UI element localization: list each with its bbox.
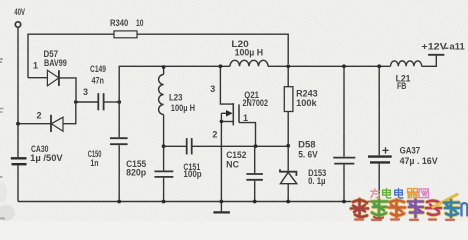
scan noise overlay — [0, 0, 1, 1]
node L23 bottom / C155 / C151 wire — [162, 144, 166, 148]
bottom red bits — [355, 218, 454, 221]
wire bottom rail — [18, 201, 379, 203]
capacitor C155 — [154, 146, 173, 201]
capacitor C149 — [78, 93, 120, 110]
node L23 top — [162, 65, 166, 69]
big char 2 green — [372, 200, 388, 217]
capacitor GA37 electrolytic — [368, 66, 392, 201]
wire top rail from corner through R340 — [28, 34, 114, 77]
inductor L20 — [230, 60, 268, 66]
diode D57 bottom half (pin2, cathode left) — [18, 104, 76, 132]
node junction dot at 40V line — [16, 122, 20, 126]
node bottom rail dots — [117, 200, 121, 204]
diode D57 top half (pin1 anode left) — [28, 70, 76, 100]
node drain junction — [219, 64, 223, 68]
yellow slash — [433, 195, 457, 208]
node rail/R243 junction — [286, 64, 290, 68]
capacitor C152 — [246, 146, 263, 201]
resistor R340 — [114, 31, 137, 38]
big char 1 dark red — [351, 199, 368, 217]
char dian blue — [395, 189, 403, 198]
resistor R243 — [284, 66, 293, 146]
char qi orange — [407, 189, 417, 198]
wire rail between L20 and L21 — [268, 65, 391, 67]
node R243 bottom junction — [286, 144, 290, 148]
big char 3 orange-red — [389, 200, 405, 218]
char guang pink — [371, 189, 380, 198]
node rail/C153 — [342, 64, 346, 68]
big char 7 blue partial — [462, 203, 468, 215]
wire mid rail — [119, 66, 230, 102]
inductor L21 — [391, 61, 422, 66]
char wang pink-magenta — [419, 189, 428, 198]
watermark row 1: small colored characters — [371, 189, 429, 198]
watermark row 2: large stylized colored characters — [351, 195, 468, 220]
inductor L23 — [159, 66, 164, 146]
big char 4 purple — [408, 200, 423, 218]
node Q21 source/substrate junction — [220, 120, 224, 124]
ground — [213, 202, 230, 213]
node D57 junction — [74, 100, 78, 104]
node rail/GA37 — [377, 64, 381, 68]
capacitor CA30 — [11, 158, 27, 201]
wire C151 row — [164, 145, 186, 147]
node 40V input terminal — [15, 22, 20, 27]
wire rail after L21 to +12V terminal — [422, 56, 437, 67]
char dian green — [383, 189, 391, 198]
node +12V output terminal — [428, 54, 444, 56]
scan edge artifacts — [0, 59, 3, 62]
capacitor C153 (0.1u) — [333, 66, 355, 201]
big char 6 teal — [444, 200, 459, 217]
transistor Q21 2N7002 — [220, 66, 255, 201]
diode D58 zener — [280, 146, 297, 202]
node C149/C150 junction — [117, 100, 121, 104]
node gate junction — [254, 144, 258, 148]
capacitor C151 — [187, 138, 289, 154]
capacitor C150 — [110, 102, 128, 202]
wire 40V down to lower-diode junction and CA30 — [17, 27, 19, 157]
wire R340 right to top-right corner down to mid rail — [137, 34, 288, 64]
big char 5 crimson — [426, 201, 441, 215]
